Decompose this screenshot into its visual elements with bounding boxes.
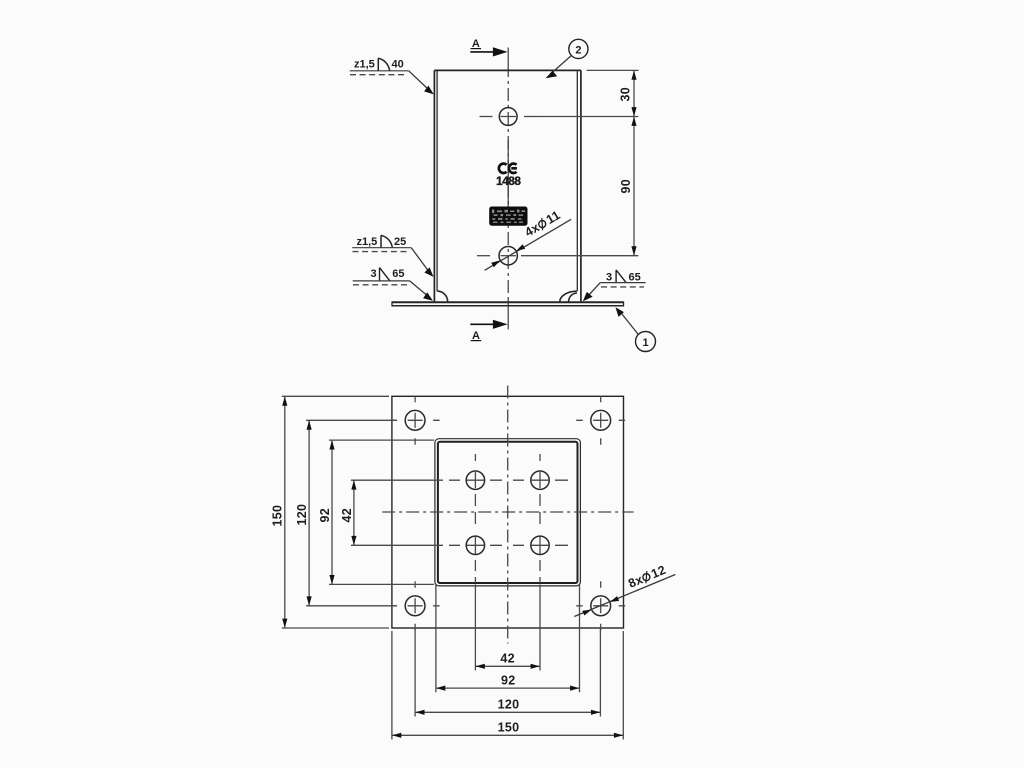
ext 120 right (599, 628, 601, 717)
arrows left dims (282, 397, 356, 628)
svg-text:z1,5: z1,5 (354, 59, 375, 71)
ext 92 top (329, 439, 434, 441)
ext 42 right (539, 584, 541, 670)
ext 92 bottom (329, 583, 434, 585)
svg-text:1: 1 (642, 337, 648, 349)
svg-text:120: 120 (295, 504, 309, 526)
svg-text:42: 42 (500, 652, 515, 666)
balloon 1 (616, 307, 656, 351)
hole 1 front (499, 108, 517, 126)
tube top edge (434, 69, 581, 71)
ext bottom 150 (282, 627, 389, 629)
section arrow top A (470, 38, 507, 57)
svg-text:1488: 1488 (496, 174, 521, 188)
plan center vertical dash-dot (507, 386, 509, 644)
ext 150 right (622, 631, 624, 740)
8x d12 leader (574, 563, 675, 617)
inner tube square outer profile (435, 439, 581, 586)
inner holes left column centerline (474, 454, 476, 583)
svg-text:30: 30 (619, 87, 633, 102)
ext 42 top (351, 479, 436, 481)
weld symbol z1,5 25 (352, 235, 433, 277)
svg-text:65: 65 (392, 268, 404, 280)
inner hole T-L (466, 471, 484, 489)
ext top 150 (282, 395, 389, 397)
left dims group (282, 396, 436, 628)
ext 120 left (414, 628, 416, 717)
inner hole T-R (531, 471, 549, 489)
dim line 120 (415, 711, 600, 713)
svg-text:3: 3 (606, 271, 612, 283)
ext 120 top (306, 419, 396, 421)
tube left wall outer (433, 70, 435, 301)
inner hole B-L (466, 536, 484, 554)
4x d11 leader line (485, 208, 572, 270)
svg-text:92: 92 (501, 673, 516, 687)
ext 92 right (579, 584, 581, 692)
hole 1 extension line to dim (538, 116, 638, 118)
hole 2 centerline dashes (477, 255, 538, 257)
dim line 42 (353, 480, 355, 545)
outer plate square (392, 396, 624, 628)
corner hole TR (576, 396, 625, 445)
dim line 30/90 vertical (633, 70, 635, 255)
weld symbol z1,5 40 (350, 58, 434, 94)
svg-text:150: 150 (498, 721, 520, 735)
hole 2 extension line to dim (538, 255, 638, 257)
hole 1 centerline dashes (480, 116, 539, 118)
weld bead left (437, 291, 447, 301)
weld symbol 3 65 right (583, 270, 646, 301)
product sticker (489, 207, 527, 226)
CE mark (499, 164, 517, 173)
plan center horizontal dash-dot (382, 511, 633, 513)
inner hole B-R (531, 536, 549, 554)
svg-text:40: 40 (392, 59, 404, 71)
dim line 120 (308, 420, 310, 606)
corner hole TL (391, 396, 440, 445)
svg-text:z1,5: z1,5 (357, 236, 378, 248)
corner hole BL (391, 581, 440, 630)
ext 150 left (391, 631, 393, 740)
dim line 92 (331, 440, 333, 584)
dim 90 arrows (631, 117, 636, 126)
balloon 2 (546, 39, 588, 78)
dim line 150 (392, 734, 623, 736)
ext 42 bottom (351, 544, 436, 546)
weld symbol 3 65 left (353, 268, 433, 301)
dim line 150 (284, 396, 286, 628)
svg-text:120: 120 (498, 698, 520, 712)
svg-text:3: 3 (371, 268, 377, 280)
weld bead right outer arc (560, 291, 577, 302)
inner holes right column centerline (539, 454, 541, 583)
arrows bottom dims (392, 664, 623, 738)
ext 92 left (435, 584, 437, 692)
ext 42 left (474, 584, 476, 670)
inner holes top row centerline (436, 479, 568, 481)
hole 2 front (499, 247, 517, 265)
dim line 92 (436, 687, 580, 689)
base plate (392, 301, 624, 306)
dim line 42 (475, 665, 540, 667)
top extension line from tube top (587, 69, 639, 71)
section arrow bottom A (470, 320, 507, 343)
section line A-A (507, 48, 509, 330)
svg-text:92: 92 (318, 508, 332, 523)
svg-text:42: 42 (340, 508, 354, 523)
dim 30 arrows (631, 71, 636, 80)
svg-text:25: 25 (394, 236, 406, 248)
bottom dims group (392, 584, 623, 739)
inner holes bottom row centerline (436, 544, 568, 546)
inner tube square inner profile (438, 442, 578, 583)
tube left wall inner edge (436, 70, 438, 291)
weld bead right inner arc (569, 293, 577, 302)
svg-text:65: 65 (629, 271, 641, 283)
svg-text:150: 150 (271, 505, 285, 527)
tube right wall inner edge (576, 70, 578, 291)
ext 120 bottom (306, 605, 396, 607)
svg-text:2: 2 (575, 44, 581, 56)
svg-text:90: 90 (619, 179, 633, 194)
corner hole BR (576, 581, 625, 630)
tube right wall outer (580, 70, 582, 301)
